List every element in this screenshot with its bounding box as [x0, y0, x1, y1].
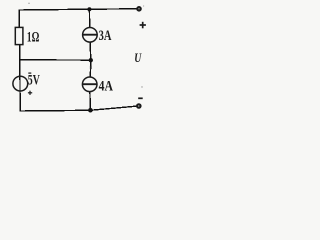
svg-text:5V: 5V: [28, 73, 40, 89]
svg-text:U: U: [134, 51, 142, 65]
svg-text:3A: 3A: [99, 28, 112, 44]
svg-text:1Ω: 1Ω: [27, 29, 40, 45]
svg-text:4A: 4A: [99, 79, 113, 95]
